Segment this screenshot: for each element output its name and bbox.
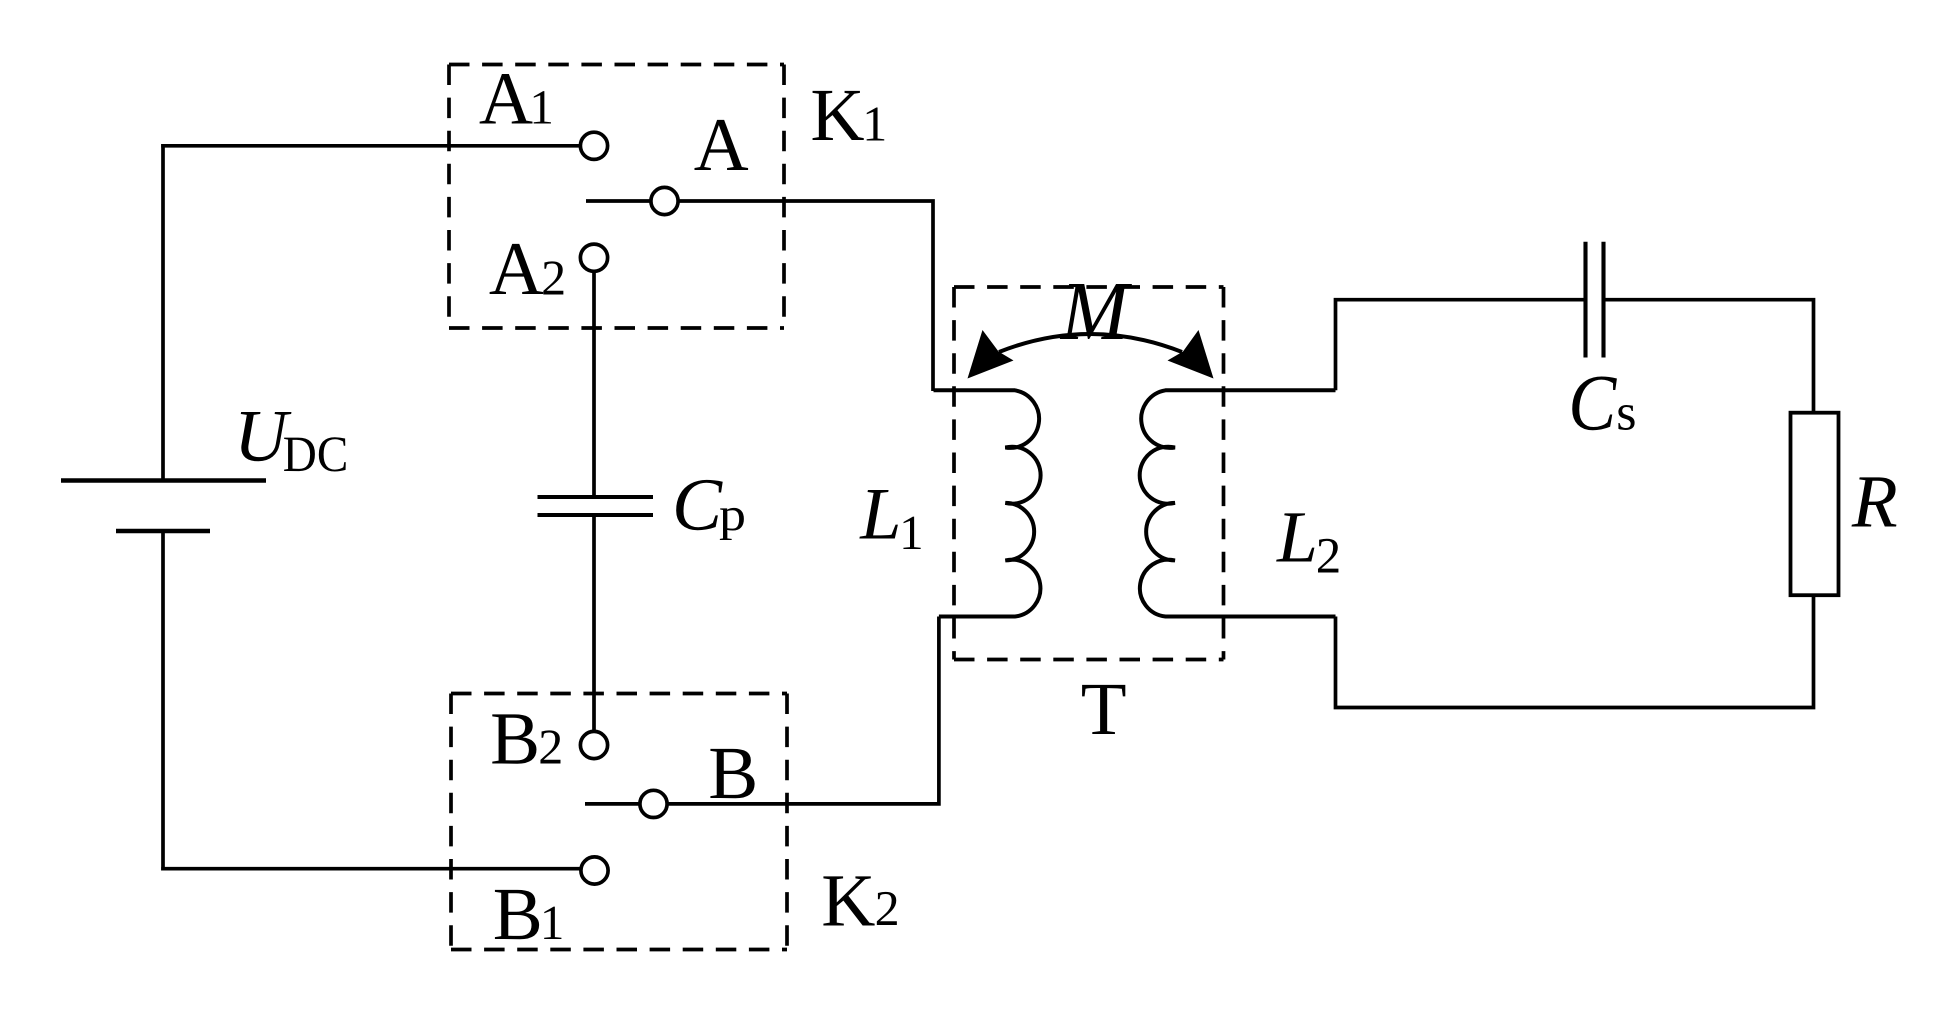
inductor L1 primary winding xyxy=(934,390,1041,616)
svg-text:B: B xyxy=(493,873,543,956)
svg-text:R: R xyxy=(1851,461,1898,544)
wire L2 top lead to capacitor Cs xyxy=(1336,300,1586,391)
svg-text:T: T xyxy=(1081,668,1127,751)
svg-text:2: 2 xyxy=(541,249,566,305)
wire Cp down to contact B2 xyxy=(592,515,596,731)
capacitor Cp plates xyxy=(538,497,654,515)
resistor R body xyxy=(1791,413,1839,596)
capacitor Cs plates xyxy=(1586,242,1604,358)
mutual inductance M coupling arc xyxy=(999,334,1182,352)
contact B1 xyxy=(581,857,608,884)
wire R bottom return loop to L2 bottom lead xyxy=(1336,595,1814,707)
svg-text:L: L xyxy=(859,474,901,556)
contact B (pole of K2) xyxy=(640,790,667,817)
svg-text:1: 1 xyxy=(529,80,554,135)
svg-text:DC: DC xyxy=(283,427,349,483)
wire stub at pole B xyxy=(585,802,639,806)
battery UDC long plate xyxy=(61,478,266,483)
switch K2 dashed box xyxy=(451,694,787,950)
wire Cs to resistor R xyxy=(1604,300,1814,413)
transformer T dashed box xyxy=(954,287,1224,660)
contact A2 xyxy=(580,244,607,271)
svg-text:2: 2 xyxy=(875,880,900,936)
inductor L2 secondary winding xyxy=(1140,390,1336,616)
svg-text:1: 1 xyxy=(862,96,887,152)
svg-text:1: 1 xyxy=(899,505,924,560)
svg-text:1: 1 xyxy=(540,895,565,950)
wire A2 down to capacitor Cp xyxy=(592,272,596,497)
svg-text:A: A xyxy=(694,103,749,187)
svg-text:p: p xyxy=(719,489,746,541)
svg-text:C: C xyxy=(672,464,723,547)
wire from pole B to transformer L1 bottom xyxy=(668,617,939,804)
contact A (pole of K1) xyxy=(651,187,678,214)
svg-text:K: K xyxy=(821,860,875,943)
svg-text:C: C xyxy=(1568,359,1617,447)
wire from pole A to transformer L1 top xyxy=(679,201,933,391)
svg-text:L: L xyxy=(1276,496,1318,577)
svg-text:s: s xyxy=(1616,385,1636,442)
svg-text:K: K xyxy=(810,74,864,157)
svg-text:2: 2 xyxy=(538,718,563,774)
contact A1 xyxy=(580,132,607,159)
wire source positive lead xyxy=(161,144,165,480)
svg-text:M: M xyxy=(1060,265,1132,358)
contact B2 xyxy=(580,731,607,758)
wire A1 horizontal from source to contact A1 xyxy=(161,144,579,148)
switch K1 dashed box xyxy=(449,65,784,329)
svg-text:A: A xyxy=(479,58,533,141)
svg-text:B: B xyxy=(490,697,540,780)
wire stub at pole A xyxy=(586,199,650,203)
wire source negative lead xyxy=(161,531,165,871)
svg-text:B: B xyxy=(708,732,758,815)
arrowhead left of mutual inductance M xyxy=(968,330,1014,379)
battery UDC short plate xyxy=(116,529,210,534)
wire bottom from source to contact B1 xyxy=(161,867,580,871)
arrowhead right of mutual inductance M xyxy=(1168,330,1214,379)
svg-text:A: A xyxy=(489,227,544,311)
svg-text:2: 2 xyxy=(1316,528,1342,584)
